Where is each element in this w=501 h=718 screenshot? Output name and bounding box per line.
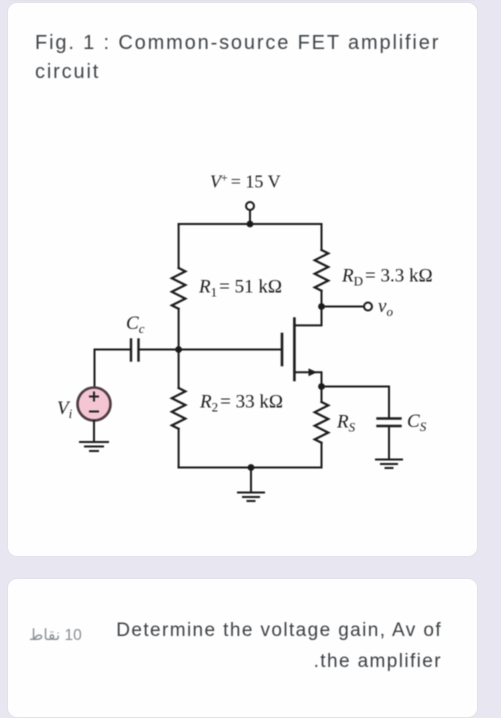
ground center stub (250, 468, 252, 493)
node bottom rail junction (248, 464, 255, 471)
ground center (238, 493, 264, 502)
svg-text:vo: vo (378, 296, 393, 319)
source Vi (78, 388, 111, 421)
bottom question card (7, 578, 478, 718)
terminal V+ (246, 202, 254, 210)
svg-text:RS: RS (336, 412, 356, 435)
wire RD to drain node (321, 291, 323, 307)
label R2 = 33 kOhm (199, 392, 283, 415)
question text (62, 615, 442, 677)
wire R2 to bottom rail (178, 429, 180, 468)
label Cc (126, 313, 145, 336)
resistor R2 (172, 388, 186, 429)
main question card (7, 2, 478, 557)
points label (29, 626, 82, 645)
wire gate rail left of Cc (95, 349, 131, 351)
wire Vi bottom (93, 421, 95, 443)
wire gate rail right of Cc (139, 349, 283, 351)
wire right upper (321, 224, 323, 250)
wire top rail (179, 223, 322, 225)
wire source to CS (322, 387, 390, 418)
svg-text:R2= 33 kΩ: R2= 33 kΩ (199, 392, 283, 415)
label V+ = 15 V (210, 171, 281, 192)
wire bottom rail (179, 467, 322, 469)
wire left lower (178, 350, 180, 389)
wire CS to ground (388, 426, 390, 460)
svg-text:CS: CS (407, 411, 427, 434)
capacitor CS (378, 419, 401, 427)
ground below CS (376, 460, 402, 469)
transistor Q1 gate bar (281, 334, 284, 365)
node drain junction (318, 303, 325, 310)
transistor Q1 channel bar (293, 319, 296, 381)
svg-text:Vi: Vi (57, 398, 73, 421)
capacitor Cc (131, 340, 139, 361)
wire V+ stub (249, 210, 251, 224)
svg-text:RD= 3.3 kΩ: RD= 3.3 kΩ (341, 266, 433, 289)
node top rail junction (247, 221, 254, 228)
wire left upper (178, 224, 180, 268)
label RD = 3.3 kOhm (341, 266, 433, 289)
label vo (378, 296, 393, 319)
svg-text:V+= 15 V: V+= 15 V (210, 171, 281, 192)
resistor RD (315, 250, 329, 291)
wire left mid (178, 309, 180, 350)
wire Vi top (94, 350, 96, 388)
label R1 = 51 kOhm (198, 277, 282, 300)
terminal vo (364, 303, 372, 311)
transistor Q1 source lead with arrow (294, 368, 321, 386)
label RS (336, 412, 356, 435)
wire vo (322, 306, 365, 308)
resistor R1 (172, 268, 186, 309)
node gate junction (175, 346, 182, 353)
label Vi (57, 398, 73, 421)
svg-text:Cc: Cc (126, 313, 145, 336)
label CS (407, 411, 427, 434)
resistor RS (315, 402, 329, 443)
previous card bottom sliver (7, 0, 478, 1)
ground below Vi (80, 442, 108, 451)
node source junction (318, 383, 325, 390)
svg-text:R1= 51 kΩ: R1= 51 kΩ (198, 277, 282, 300)
transistor Q1 drain lead (294, 307, 321, 326)
figure caption title (35, 29, 465, 87)
wire source to RS (321, 387, 323, 403)
wire RS to bottom rail (321, 443, 323, 468)
